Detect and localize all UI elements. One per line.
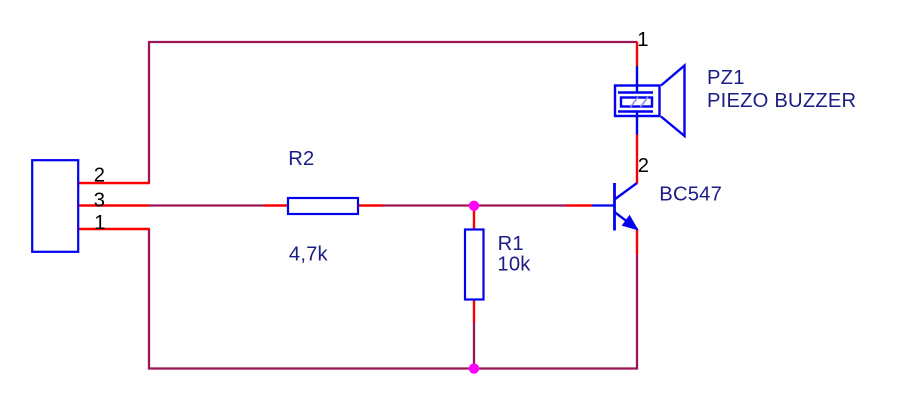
svg-text:1: 1	[637, 29, 648, 51]
svg-text:4,7k: 4,7k	[289, 244, 329, 266]
wire pin 3 stub	[78, 204, 149, 206]
resistor R2 body	[288, 198, 358, 214]
wire R1 bottom lead red	[473, 300, 475, 323]
wire R2 right lead	[358, 204, 383, 206]
wire net from pin1 down, across bottom, up right side to emitter	[149, 229, 637, 369]
svg-text:2: 2	[94, 165, 105, 187]
connector X1 body	[32, 160, 78, 252]
wire pin 2 stub	[78, 182, 150, 184]
wire node A to R1 top	[473, 206, 475, 230]
svg-text:2: 2	[638, 155, 649, 177]
wire R1 bottom net segment	[473, 323, 475, 369]
wire buzzer pin1 red top	[636, 42, 638, 67]
wire buzzer pin2 to collector red	[636, 134, 638, 184]
svg-text:BC547: BC547	[659, 184, 722, 206]
svg-text:R1: R1	[498, 233, 524, 255]
svg-text:R2: R2	[288, 148, 314, 170]
wire pin 1 stub	[78, 228, 150, 230]
wire emitter lead red	[636, 229, 638, 255]
wire mid net right segment through node	[382, 204, 567, 206]
svg-text:3: 3	[94, 189, 105, 211]
svg-text:PZ1: PZ1	[707, 67, 745, 89]
transistor Q1 BC547	[592, 183, 637, 231]
svg-text:PIEZO BUZZER: PIEZO BUZZER	[707, 90, 856, 112]
wire net from pin2 up and across top	[149, 42, 637, 183]
wire base lead red	[567, 204, 593, 206]
svg-text:10k: 10k	[497, 254, 531, 276]
wire R2 left lead	[264, 204, 288, 206]
node A junction dot	[469, 201, 479, 211]
resistor R1 body	[465, 230, 484, 300]
piezo buzzer PZ1 symbol	[615, 66, 685, 137]
node B junction dot	[469, 363, 479, 373]
wire mid net left segment	[148, 204, 265, 206]
svg-text:1: 1	[94, 212, 105, 234]
